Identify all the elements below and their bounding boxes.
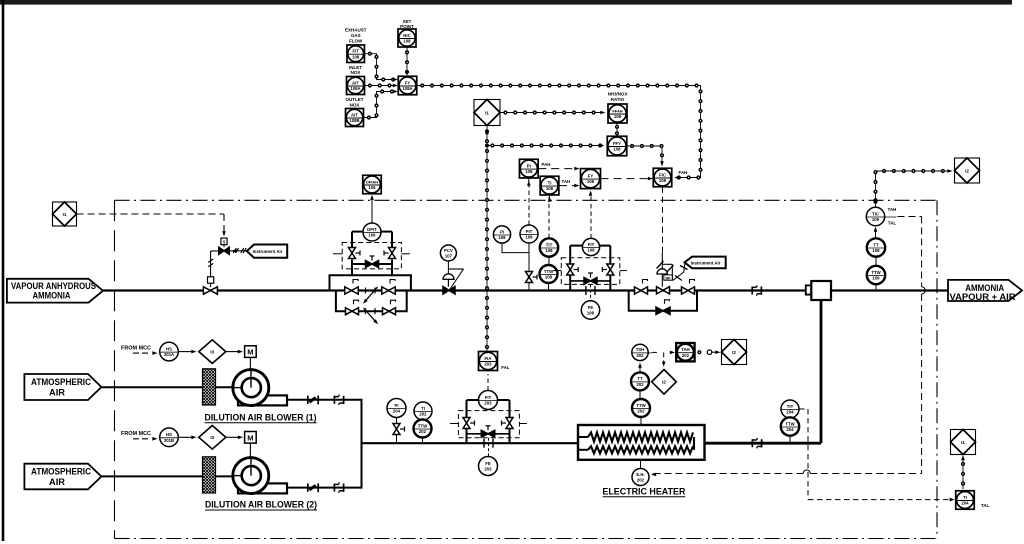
svg-text:AIR: AIR bbox=[49, 477, 66, 487]
svg-text:M: M bbox=[247, 348, 253, 357]
svg-text:FIT: FIT bbox=[588, 242, 595, 247]
svg-text:AIT: AIT bbox=[352, 80, 359, 85]
svg-text:Instrument Air: Instrument Air bbox=[691, 260, 721, 265]
svg-text:204: 204 bbox=[786, 427, 794, 432]
svg-text:FLOW: FLOW bbox=[349, 39, 363, 44]
svg-text:ELECTRIC HEATER: ELECTRIC HEATER bbox=[602, 485, 685, 496]
svg-text:202: 202 bbox=[637, 478, 645, 483]
svg-text:I2: I2 bbox=[965, 168, 969, 173]
svg-text:108: 108 bbox=[525, 169, 533, 174]
svg-text:M: M bbox=[247, 433, 253, 442]
svg-text:ATMOSPHERIC: ATMOSPHERIC bbox=[31, 377, 91, 387]
svg-text:203: 203 bbox=[484, 362, 492, 367]
svg-text:DILUTION AIR BLOWER (1): DILUTION AIR BLOWER (1) bbox=[205, 412, 317, 422]
svg-text:TAH: TAH bbox=[562, 179, 571, 184]
svg-text:I3: I3 bbox=[210, 435, 214, 440]
svg-text:108: 108 bbox=[587, 248, 595, 253]
svg-text:108A: 108A bbox=[402, 86, 412, 91]
svg-text:FROM MCC: FROM MCC bbox=[121, 345, 151, 351]
svg-text:TT: TT bbox=[637, 376, 643, 381]
svg-text:FE: FE bbox=[485, 461, 491, 466]
svg-text:ATMOSPHERIC: ATMOSPHERIC bbox=[31, 467, 91, 477]
svg-text:TI: TI bbox=[548, 180, 552, 185]
svg-text:202: 202 bbox=[419, 412, 427, 417]
svg-text:203: 203 bbox=[484, 467, 492, 472]
svg-text:FFAH: FFAH bbox=[612, 108, 622, 113]
svg-text:HS: HS bbox=[166, 432, 172, 437]
svg-text:TTW: TTW bbox=[871, 270, 881, 275]
svg-text:106: 106 bbox=[368, 233, 376, 238]
svg-text:DPIT: DPIT bbox=[367, 227, 377, 232]
svg-text:PI: PI bbox=[394, 403, 398, 408]
svg-text:GAS: GAS bbox=[351, 33, 361, 38]
svg-text:108: 108 bbox=[659, 178, 667, 183]
svg-text:FIC: FIC bbox=[659, 172, 666, 177]
svg-text:TSH: TSH bbox=[636, 347, 645, 352]
svg-text:TTW: TTW bbox=[636, 403, 646, 408]
svg-text:TIT: TIT bbox=[787, 404, 794, 409]
svg-text:AIR: AIR bbox=[49, 388, 66, 398]
svg-text:202: 202 bbox=[637, 409, 645, 414]
svg-text:AMMONIA: AMMONIA bbox=[33, 290, 71, 300]
svg-text:TIC: TIC bbox=[872, 211, 879, 216]
svg-text:108: 108 bbox=[525, 235, 533, 240]
svg-text:108: 108 bbox=[545, 275, 553, 280]
svg-text:FIT: FIT bbox=[485, 395, 492, 400]
svg-text:DPIAH: DPIAH bbox=[366, 179, 378, 184]
svg-text:109: 109 bbox=[872, 217, 880, 222]
svg-text:EXHAUST: EXHAUST bbox=[345, 28, 367, 33]
svg-text:VAPOUR + AIR: VAPOUR + AIR bbox=[950, 292, 1016, 302]
svg-text:I1: I1 bbox=[485, 110, 489, 115]
svg-text:106: 106 bbox=[368, 185, 376, 190]
svg-text:108: 108 bbox=[614, 114, 622, 119]
svg-text:FROM MCC: FROM MCC bbox=[121, 431, 151, 437]
svg-text:TTW: TTW bbox=[544, 269, 554, 274]
svg-text:107: 107 bbox=[445, 254, 453, 259]
svg-text:PI: PI bbox=[500, 229, 504, 234]
svg-text:108: 108 bbox=[352, 54, 360, 59]
svg-text:NOX: NOX bbox=[350, 103, 360, 108]
svg-text:RATIO: RATIO bbox=[611, 97, 625, 102]
svg-text:S: S bbox=[223, 240, 226, 245]
svg-text:HS: HS bbox=[166, 346, 172, 351]
svg-text:201B: 201B bbox=[164, 438, 174, 443]
svg-text:I2: I2 bbox=[732, 350, 736, 355]
svg-text:202: 202 bbox=[636, 382, 644, 387]
svg-text:TAH: TAH bbox=[681, 347, 690, 352]
svg-text:203: 203 bbox=[484, 401, 492, 406]
svg-text:202: 202 bbox=[636, 353, 644, 358]
svg-text:PAH: PAH bbox=[542, 162, 551, 167]
svg-text:I2: I2 bbox=[662, 380, 666, 385]
svg-text:202: 202 bbox=[419, 429, 427, 434]
svg-text:DILUTION AIR BLOWER (2): DILUTION AIR BLOWER (2) bbox=[205, 500, 317, 510]
svg-text:FAH: FAH bbox=[679, 170, 688, 175]
svg-text:AIT: AIT bbox=[351, 112, 358, 117]
svg-text:I1: I1 bbox=[63, 212, 67, 217]
svg-text:FY: FY bbox=[405, 80, 411, 85]
svg-text:E.H.: E.H. bbox=[636, 472, 644, 477]
svg-text:INLET: INLET bbox=[349, 65, 362, 70]
svg-text:NOX: NOX bbox=[351, 70, 361, 75]
svg-text:TTW: TTW bbox=[785, 421, 795, 426]
svg-text:TAL: TAL bbox=[888, 221, 897, 226]
svg-text:FY: FY bbox=[588, 173, 594, 178]
svg-text:TTW: TTW bbox=[418, 423, 428, 428]
svg-text:I1: I1 bbox=[961, 440, 965, 445]
svg-text:108: 108 bbox=[546, 186, 554, 191]
svg-text:FFY: FFY bbox=[613, 141, 621, 146]
svg-text:PI: PI bbox=[527, 163, 531, 168]
svg-text:FIA: FIA bbox=[485, 356, 492, 361]
svg-text:I3: I3 bbox=[210, 349, 214, 354]
svg-text:Instrument Air: Instrument Air bbox=[253, 249, 283, 254]
svg-text:VAPOUR ANHYDROUS: VAPOUR ANHYDROUS bbox=[11, 281, 96, 291]
svg-text:108B: 108B bbox=[349, 118, 359, 123]
svg-text:NH3/NOX: NH3/NOX bbox=[608, 92, 628, 97]
svg-text:TI: TI bbox=[963, 495, 967, 500]
svg-text:108: 108 bbox=[498, 235, 506, 240]
svg-text:PCV: PCV bbox=[444, 248, 453, 253]
svg-text:TI: TI bbox=[421, 406, 425, 411]
svg-text:204: 204 bbox=[393, 409, 401, 414]
svg-text:108A: 108A bbox=[350, 86, 360, 91]
svg-text:108: 108 bbox=[587, 311, 595, 316]
svg-text:SET: SET bbox=[403, 19, 412, 24]
svg-text:PIT: PIT bbox=[526, 229, 533, 234]
svg-text:FE: FE bbox=[588, 305, 594, 310]
svg-text:MP: MP bbox=[665, 276, 671, 280]
svg-text:FAL: FAL bbox=[501, 365, 510, 370]
svg-text:OUTLET: OUTLET bbox=[346, 97, 364, 102]
svg-text:204: 204 bbox=[961, 501, 969, 506]
svg-text:TAH: TAH bbox=[888, 207, 897, 212]
svg-text:201A: 201A bbox=[164, 352, 174, 357]
svg-text:204: 204 bbox=[786, 410, 794, 415]
svg-text:108: 108 bbox=[545, 248, 553, 253]
svg-text:108: 108 bbox=[403, 39, 411, 44]
svg-text:109: 109 bbox=[872, 248, 880, 253]
svg-text:202: 202 bbox=[682, 353, 690, 358]
svg-text:TAL: TAL bbox=[981, 503, 990, 508]
svg-text:108: 108 bbox=[587, 179, 595, 184]
svg-text:TT: TT bbox=[873, 242, 879, 247]
svg-text:109: 109 bbox=[872, 276, 880, 281]
svg-text:TIT: TIT bbox=[546, 242, 553, 247]
svg-text:108: 108 bbox=[613, 147, 621, 152]
svg-text:HIC: HIC bbox=[403, 33, 410, 38]
svg-text:FIT: FIT bbox=[352, 49, 359, 54]
